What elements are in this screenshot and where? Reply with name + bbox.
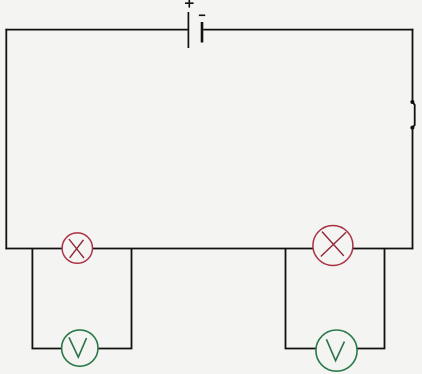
wire bottom segment 1	[5, 248, 62, 250]
wire left side	[5, 29, 7, 250]
voltmeter V1 V mark	[69, 337, 87, 357]
lamp L1 circle	[62, 233, 92, 263]
switch S1 top terminal node	[410, 100, 414, 104]
switch S1 bottom terminal node	[410, 126, 414, 130]
lamp L1 cross	[69, 239, 84, 258]
wire voltmeter V1 left branch	[32, 249, 61, 349]
battery plus label	[185, 0, 194, 8]
wire voltmeter V1 right branch	[98, 249, 132, 349]
wire voltmeter V2 left branch	[286, 249, 317, 349]
voltmeter V2 circle	[316, 330, 357, 371]
wire bottom segment 2 (between lamps)	[93, 248, 314, 250]
switch S1 lever (closed)	[412, 102, 414, 128]
wire bottom segment 3	[353, 248, 414, 250]
wire right side lower (from switch)	[412, 129, 414, 250]
battery minus label	[199, 14, 205, 16]
voltmeter V2 V mark	[326, 339, 344, 360]
wire right side upper (to switch)	[412, 29, 414, 101]
wire top-right segment	[203, 29, 413, 31]
battery B1 negative plate (short thick)	[201, 22, 204, 43]
wire voltmeter V2 right branch	[357, 249, 385, 349]
voltmeter V1 circle	[62, 330, 98, 366]
battery B1 positive plate (long)	[187, 12, 189, 48]
wire top-left segment	[5, 29, 187, 31]
lamp L2 cross	[321, 232, 346, 257]
lamp L2 circle	[313, 226, 353, 266]
